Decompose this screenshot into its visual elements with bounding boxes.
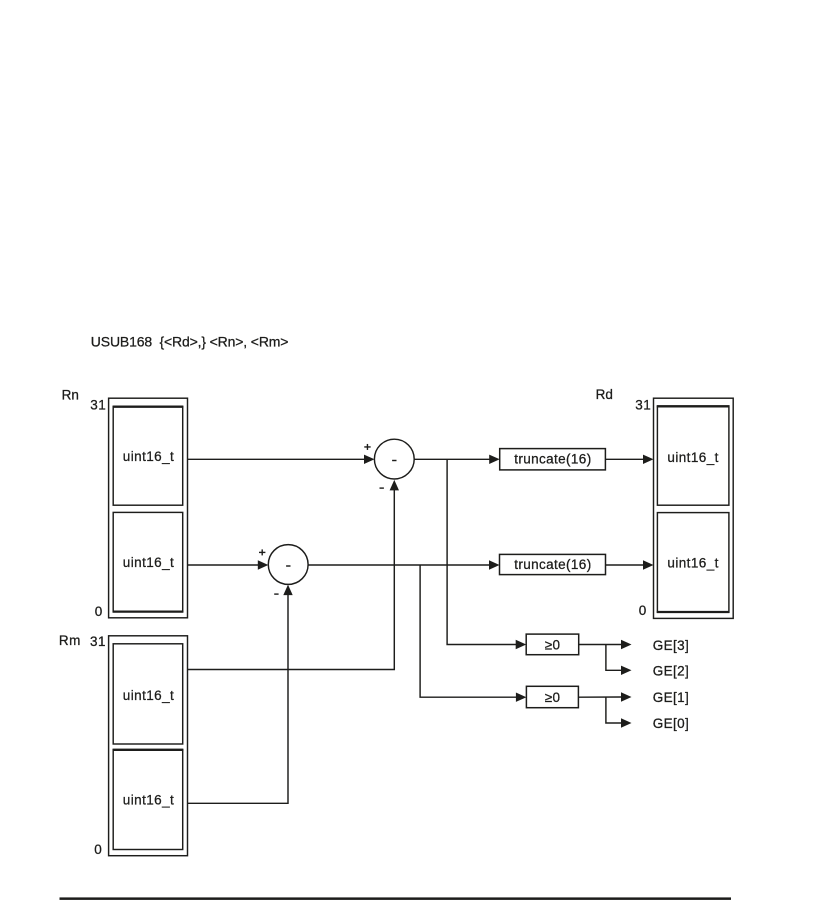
- wire G2 branch to GE[0]: [606, 697, 622, 723]
- svg-text:Rd: Rd: [596, 387, 613, 402]
- Rm cell uint16_t bits 31:16: [113, 644, 183, 744]
- wire Rn[15:0] to subtractor S2: [188, 564, 259, 566]
- svg-text:≥0: ≥0: [545, 638, 561, 653]
- svg-text:uint16_t: uint16_t: [123, 688, 174, 703]
- svg-text:Rn: Rn: [62, 387, 79, 402]
- svg-text:uint16_t: uint16_t: [667, 450, 718, 465]
- svg-text:≥0: ≥0: [545, 690, 561, 705]
- svg-text:truncate(16): truncate(16): [514, 451, 591, 466]
- svg-text:GE[3]: GE[3]: [653, 638, 689, 653]
- S2 minus sign: [274, 593, 278, 595]
- svg-text:0: 0: [94, 842, 102, 857]
- svg-text:31: 31: [90, 634, 106, 649]
- wire Rn[31:16] to subtractor S1: [188, 458, 366, 460]
- Rm cell uint16_t bits 15:0: [113, 750, 184, 850]
- GE comparator box G1: [526, 634, 579, 655]
- wire T2 to Rd[15:0]: [606, 564, 645, 566]
- wire G1 to GE[3]: [579, 644, 622, 646]
- svg-text:Rm: Rm: [59, 633, 81, 648]
- wire Rm[15:0] to S2 bottom input: [188, 594, 289, 803]
- svg-text:0: 0: [639, 603, 647, 618]
- GE comparator box G2: [526, 686, 578, 707]
- svg-text:31: 31: [635, 397, 651, 412]
- svg-text:uint16_t: uint16_t: [123, 793, 174, 808]
- svg-text:GE[0]: GE[0]: [653, 716, 689, 731]
- svg-text:GE[1]: GE[1]: [653, 690, 689, 705]
- subtractor S1: [374, 439, 414, 479]
- svg-text:truncate(16): truncate(16): [514, 557, 591, 572]
- wire S1 output to truncate T1: [414, 458, 490, 460]
- svg-text:USUB168 {<Rd>,} <Rn>, <Rm>: USUB168 {<Rd>,} <Rn>, <Rm>: [91, 334, 289, 350]
- Rn cell uint16_t bits 15:0: [113, 512, 184, 611]
- svg-text:uint16_t: uint16_t: [123, 449, 174, 464]
- wire G1 branch to GE[2]: [606, 645, 622, 671]
- register Rn outer box: [109, 398, 188, 618]
- footer rule: [60, 897, 732, 900]
- svg-text:GE[2]: GE[2]: [653, 663, 689, 678]
- wire S1 output branch to GE comparator G1: [447, 459, 517, 644]
- truncate box T1: [500, 449, 606, 470]
- svg-text:uint16_t: uint16_t: [123, 555, 174, 570]
- svg-text:0: 0: [95, 604, 103, 619]
- S1 plus sign: [364, 444, 370, 450]
- wire T1 to Rd[31:16]: [605, 458, 644, 460]
- S2 plus sign: [259, 549, 265, 555]
- svg-text:31: 31: [90, 397, 106, 412]
- Rd cell uint16_t bits 31:16: [657, 406, 730, 505]
- register Rm outer box: [109, 636, 188, 856]
- wire Rm[31:16] to S1 bottom input: [188, 490, 395, 670]
- truncate box T2: [500, 554, 606, 574]
- S1 minus sign: [380, 487, 384, 489]
- Rd cell uint16_t bits 15:0: [657, 513, 730, 613]
- subtractor S2: [268, 545, 308, 585]
- wire S2 output to truncate T2: [308, 564, 490, 566]
- register Rd outer box: [654, 398, 734, 618]
- wire S2 output branch to GE comparator G2: [420, 565, 517, 697]
- Rn cell uint16_t bits 31:16: [113, 407, 184, 506]
- wire G2 to GE[1]: [578, 696, 621, 698]
- svg-text:uint16_t: uint16_t: [667, 556, 718, 571]
